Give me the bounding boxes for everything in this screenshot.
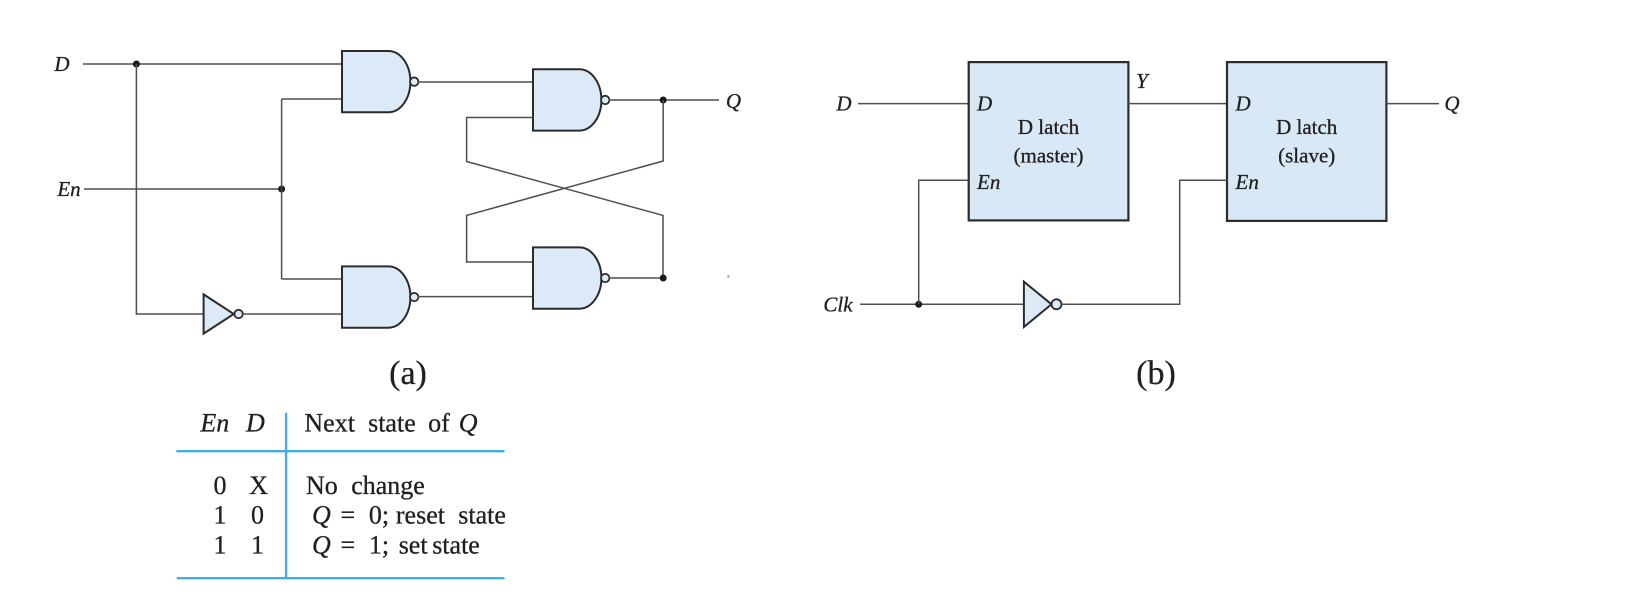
- wire D branch down to inverter: [136, 64, 203, 314]
- svg-text:1: 1: [214, 501, 227, 530]
- wire D input: [83, 63, 342, 65]
- svg-text:D: D: [53, 52, 69, 76]
- wire cross-couple from Q down to U4 upper input: [467, 100, 664, 262]
- wire U3 output to U4 lower input: [418, 296, 533, 298]
- junction on En wire: [278, 186, 285, 193]
- NAND gate U2: [533, 69, 609, 130]
- wire inverter output to gate U3 lower input: [243, 313, 342, 315]
- wire cross-couple from U4 output up to U2 lower input: [467, 118, 663, 279]
- D latch master box U6: [969, 62, 1129, 220]
- svg-text:1: 1: [251, 530, 264, 559]
- inverter U8: [1024, 282, 1062, 327]
- stray speck: [727, 275, 729, 277]
- table rule vertical: [285, 413, 287, 579]
- svg-text:X: X: [249, 471, 268, 500]
- svg-text:D: D: [245, 409, 265, 438]
- svg-text:Nochange: Nochange: [306, 471, 425, 500]
- svg-text:D: D: [1235, 92, 1251, 116]
- table rule top horizontal: [176, 450, 504, 452]
- junction on D wire: [133, 61, 140, 68]
- svg-text:D latch: D latch: [1018, 115, 1080, 139]
- wire Clk input: [860, 303, 1024, 305]
- wire Clk branch to master En: [919, 180, 969, 304]
- wire En to gate U3 upper input: [282, 278, 342, 280]
- wire Y master to slave: [1128, 103, 1227, 105]
- D latch slave box U7: [1227, 62, 1386, 221]
- svg-text:Q: Q: [1444, 92, 1459, 116]
- inverter U5: [204, 294, 243, 333]
- svg-text:En: En: [976, 170, 1000, 194]
- svg-text:En: En: [199, 409, 229, 438]
- svg-text:D: D: [976, 92, 992, 116]
- junction on Clk wire: [915, 301, 922, 308]
- wire U1 output to U2 upper input: [418, 81, 533, 83]
- NAND gate U1: [342, 51, 418, 112]
- svg-text:(a): (a): [389, 355, 427, 392]
- wire U2 output to Q: [609, 99, 719, 101]
- wire D input (b): [858, 103, 969, 105]
- svg-text:1: 1: [214, 530, 227, 559]
- svg-text:En: En: [1235, 170, 1259, 194]
- svg-text:D: D: [835, 92, 851, 116]
- svg-text:(b): (b): [1136, 355, 1176, 392]
- svg-text:0: 0: [251, 501, 264, 530]
- wire inverter output to slave En: [1062, 180, 1228, 304]
- svg-text:Q: Q: [726, 89, 741, 113]
- wire U4 output: [609, 277, 663, 279]
- svg-text:(master): (master): [1014, 143, 1084, 167]
- wire En branch vertical: [281, 99, 283, 279]
- wire En to gate U1 lower input: [282, 98, 342, 100]
- NAND gate U3: [342, 266, 418, 327]
- junction node Qbar: [660, 275, 667, 282]
- svg-text:Clk: Clk: [823, 292, 853, 316]
- svg-text:D latch: D latch: [1276, 115, 1338, 139]
- svg-text:0: 0: [214, 471, 227, 500]
- table rule bottom horizontal: [177, 577, 505, 579]
- wire En input: [84, 188, 282, 190]
- svg-text:(slave): (slave): [1278, 143, 1335, 167]
- NAND gate U4: [533, 247, 609, 308]
- wire Q output (b): [1386, 103, 1439, 105]
- junction node Q: [660, 97, 667, 104]
- svg-text:En: En: [56, 177, 80, 201]
- svg-text:Q=0;resetstate: Q=0;resetstate: [312, 501, 506, 530]
